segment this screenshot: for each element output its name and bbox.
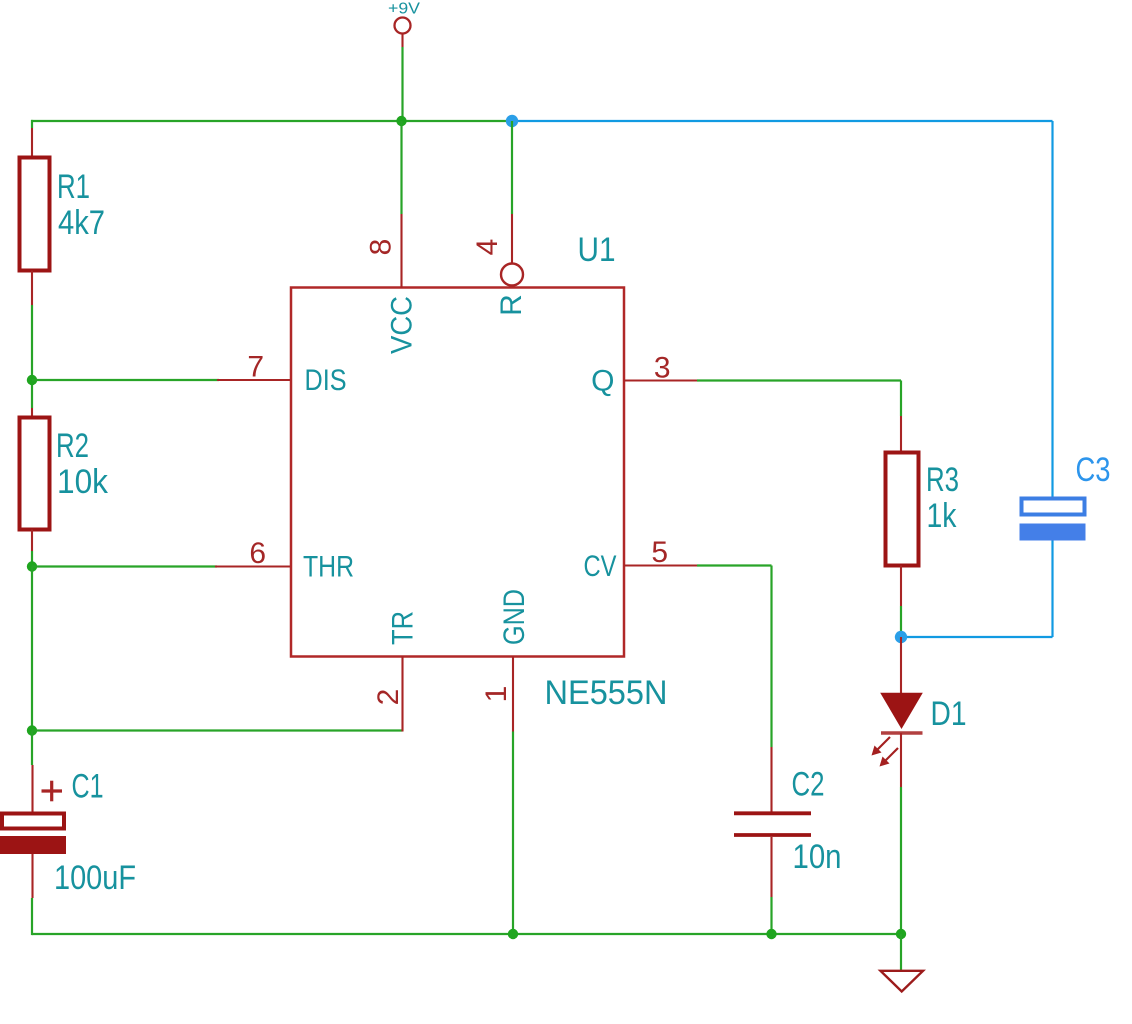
wire left rail upper <box>31 120 33 128</box>
capacitor C1 top pin <box>31 765 33 813</box>
svg-text:U1: U1 <box>578 231 616 269</box>
capacitor C2 bottom plate <box>734 833 811 837</box>
svg-text:VCC: VCC <box>386 296 419 354</box>
capacitor C2 top plate <box>734 811 811 815</box>
pin 8 VCC stub <box>400 214 402 288</box>
svg-text:4: 4 <box>471 239 504 256</box>
diode D1 emission arrow 2 <box>880 748 899 767</box>
svg-text:C3: C3 <box>1076 451 1111 489</box>
svg-text:R2: R2 <box>56 427 89 465</box>
wire Q horizontal <box>697 379 901 381</box>
svg-text:NE555N: NE555N <box>545 674 668 712</box>
pin 4 R stub <box>511 214 513 263</box>
svg-text:DIS: DIS <box>305 364 347 397</box>
svg-text:3: 3 <box>654 352 671 385</box>
node junction D1 bottom <box>896 929 906 939</box>
svg-text:10n: 10n <box>793 838 842 876</box>
wire C2 to bottom rail <box>770 897 772 934</box>
resistor R3 bottom pin <box>900 566 902 607</box>
svg-text:+9V: +9V <box>388 1 420 18</box>
svg-text:R: R <box>495 294 528 316</box>
pin 3 Q stub <box>624 379 697 381</box>
svg-text:TR: TR <box>387 611 420 645</box>
power symbol +9V circle <box>395 18 411 34</box>
svg-text:1k: 1k <box>927 497 958 535</box>
wire highlighted blue vertical C3 bottom <box>1051 540 1053 637</box>
capacitor C1 top plate <box>2 814 64 829</box>
wire pin1 GND to bottom rail <box>512 732 514 935</box>
svg-text:5: 5 <box>651 536 668 569</box>
node junction pin1 bottom <box>508 929 518 939</box>
svg-text:CV: CV <box>584 550 617 583</box>
capacitor C2 bottom pin <box>770 837 772 897</box>
node junction DIS <box>27 375 37 385</box>
svg-text:R1: R1 <box>57 168 90 206</box>
svg-text:GND: GND <box>498 589 531 645</box>
wire Q corner down <box>900 381 902 417</box>
svg-text:7: 7 <box>247 351 264 384</box>
wire D1 to bottom rail <box>900 787 902 934</box>
resistor R2 top pin <box>31 408 33 418</box>
capacitor C3 wire top <box>1051 121 1053 498</box>
svg-text:C2: C2 <box>792 766 825 804</box>
diode D1 cathode bar <box>881 731 923 735</box>
diode D1 anode pin <box>900 637 902 694</box>
wire +9V vertical <box>401 47 403 121</box>
wire left rail to C1 <box>31 731 33 766</box>
capacitor C2 top pin <box>770 747 772 812</box>
power symbol pin stub <box>401 34 403 47</box>
wire highlighted blue horizontal to C3 <box>901 636 1053 638</box>
svg-text:THR: THR <box>303 551 354 584</box>
svg-text:D1: D1 <box>931 695 967 733</box>
wire ground stub <box>900 934 902 970</box>
node junction top blue <box>506 115 518 127</box>
pin 1 GND stub <box>512 656 514 732</box>
svg-text:2: 2 <box>372 689 405 706</box>
diode D1 emission arrow 1 <box>872 737 891 756</box>
pin 2 TR stub <box>401 656 403 732</box>
resistor R2 body <box>20 418 50 530</box>
svg-text:Q: Q <box>591 365 614 398</box>
node junction top green <box>396 116 406 126</box>
wire bottom rail <box>32 933 901 935</box>
svg-text:100uF: 100uF <box>54 859 136 897</box>
wire DIS horizontal <box>32 379 219 381</box>
capacitor C1 bottom pin <box>31 854 33 898</box>
pin 6 THR stub <box>215 565 291 567</box>
node junction C2 bottom <box>766 929 776 939</box>
wire CV horizontal <box>697 564 772 566</box>
wire CV vertical down <box>770 566 772 748</box>
capacitor C1 plus sign <box>42 781 63 802</box>
wire left rail THR to TR junction <box>31 567 33 731</box>
node junction TR <box>27 725 37 735</box>
wire C1 to bottom rail <box>31 898 33 935</box>
resistor R1 body <box>20 158 50 271</box>
capacitor C1 bottom plate <box>0 836 66 854</box>
capacitor C3 bottom plate <box>1020 524 1086 541</box>
svg-text:R3: R3 <box>926 461 959 499</box>
resistor R1 bottom pin <box>31 271 33 306</box>
capacitor C3 top plate <box>1022 499 1085 515</box>
wire top horizontal green <box>31 120 512 122</box>
resistor R3 body <box>886 453 919 566</box>
wire left rail R2 to THR <box>31 551 33 567</box>
svg-text:4k7: 4k7 <box>58 204 105 242</box>
resistor R3 top pin <box>900 416 902 453</box>
svg-text:6: 6 <box>249 537 266 570</box>
svg-text:8: 8 <box>365 239 398 256</box>
svg-text:10k: 10k <box>57 463 109 501</box>
diode D1 cathode pin <box>900 733 902 787</box>
wire R3 to D1 node <box>900 606 902 637</box>
wire top horizontal blue highlighted <box>512 120 1053 122</box>
pin 4 invert circle <box>501 264 523 286</box>
op-amp U1 body NE555 <box>291 288 624 657</box>
wire pin4 to top rail <box>511 121 513 214</box>
wire THR horizontal <box>32 565 217 567</box>
node junction blue D1 <box>895 631 907 643</box>
node junction THR <box>27 561 37 571</box>
resistor R2 bottom pin <box>31 530 33 552</box>
pin 7 DIS stub <box>217 379 291 381</box>
resistor R1 top pin <box>31 128 33 158</box>
diode D1 triangle <box>882 694 922 728</box>
wire TR horizontal <box>32 729 403 731</box>
svg-text:1: 1 <box>480 686 513 703</box>
svg-text:C1: C1 <box>72 768 104 806</box>
ground symbol <box>881 971 924 992</box>
pin 5 CV stub <box>624 564 697 566</box>
wire left rail R1 to R2 <box>31 305 33 408</box>
wire pin8 to top rail <box>400 121 402 214</box>
